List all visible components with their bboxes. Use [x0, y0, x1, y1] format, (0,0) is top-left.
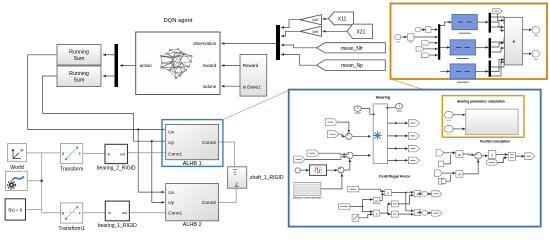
svg-text:Random number generator: Random number generator — [293, 197, 322, 200]
svg-text:X21: X21 — [357, 29, 366, 35]
svg-text:out: out — [120, 152, 125, 156]
svg-text:isdone: isdone — [203, 84, 217, 89]
svg-text:reward: reward — [203, 63, 217, 68]
svg-text:in: in — [108, 152, 111, 156]
svg-text:B: B — [62, 211, 64, 215]
svg-text:1e5: 1e5 — [312, 30, 318, 34]
svg-text:X11: X11 — [338, 17, 347, 23]
svg-text:Bearing parameters calculation: Bearing parameters calculation — [457, 99, 505, 103]
svg-text:F: F — [79, 152, 81, 156]
svg-text:mean_Np: mean_Np — [341, 63, 363, 69]
svg-text:action: action — [140, 63, 153, 68]
svg-text:ALHB 2: ALHB 2 — [183, 222, 202, 228]
svg-text:×: × — [375, 212, 377, 216]
svg-text:Ux: Ux — [168, 129, 174, 134]
svg-text:Uy: Uy — [168, 140, 174, 145]
svg-text:Transform: Transform — [60, 167, 83, 173]
svg-text:f(x) = 0: f(x) = 0 — [8, 208, 22, 213]
svg-text:bearing_2_RIGID: bearing_2_RIGID — [97, 165, 136, 171]
svg-text:Conn1: Conn1 — [168, 211, 182, 216]
svg-text:Conn2: Conn2 — [202, 140, 216, 145]
svg-text:out: out — [122, 211, 127, 215]
svg-text:Transform1: Transform1 — [58, 226, 84, 232]
svg-text:in: in — [108, 211, 111, 215]
svg-text:Ux: Ux — [168, 190, 174, 195]
svg-text:Sum: Sum — [74, 56, 85, 62]
svg-text:Position calculation: Position calculation — [480, 140, 510, 144]
svg-text:Reward: Reward — [243, 63, 259, 68]
svg-text:Sum: Sum — [74, 77, 85, 83]
svg-text:observation: observation — [193, 41, 217, 46]
svg-text:bearing_1_RIGID: bearing_1_RIGID — [98, 223, 137, 229]
svg-text:is Done1: is Done1 — [243, 85, 261, 90]
svg-text:Uy: Uy — [168, 200, 174, 205]
svg-text:ALHB 1: ALHB 1 — [183, 161, 202, 167]
svg-text:1e5: 1e5 — [312, 18, 318, 22]
svg-text:World: World — [10, 165, 24, 171]
svg-text:Running: Running — [69, 71, 89, 77]
svg-text:Bearing: Bearing — [376, 95, 391, 99]
svg-text:Centrifugal Force: Centrifugal Force — [379, 174, 410, 178]
svg-text:×: × — [416, 211, 418, 215]
svg-text:mean_Nfr: mean_Nfr — [341, 46, 363, 52]
svg-text:B: B — [62, 152, 64, 156]
svg-text:shaft_1_RIGID: shaft_1_RIGID — [250, 175, 284, 181]
svg-text:Running: Running — [69, 50, 89, 56]
svg-text:×: × — [387, 191, 389, 195]
svg-text:DQN agent: DQN agent — [164, 18, 193, 24]
svg-text:×: × — [416, 193, 418, 197]
svg-text:Conn2: Conn2 — [202, 200, 216, 205]
svg-text:F: F — [79, 211, 81, 215]
svg-text:Conn1: Conn1 — [168, 152, 182, 157]
